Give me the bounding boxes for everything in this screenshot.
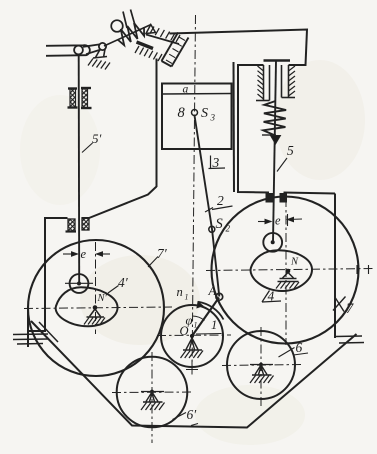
frame diagonal from lower guide to cylinder xyxy=(89,187,157,219)
center of mass S2 xyxy=(209,226,215,232)
spring coils (top-left) xyxy=(118,23,145,45)
gear 6 circle xyxy=(227,331,295,399)
hopper left inner parallel segment xyxy=(39,322,58,342)
rod 5 lower guide block right xyxy=(280,194,287,203)
svg-text:6: 6 xyxy=(296,340,303,355)
upper hatched wall xyxy=(146,35,179,45)
rod 5' lower guide block right xyxy=(82,218,89,230)
piston rectangle (link 3) xyxy=(162,84,232,150)
svg-text:7′: 7′ xyxy=(157,246,168,261)
frame right wall vertical xyxy=(334,194,336,339)
rod 5' (left valve rod) xyxy=(78,55,81,284)
svg-text:e: e xyxy=(275,214,281,228)
svg-text:a: a xyxy=(183,84,189,96)
label 6 xyxy=(279,348,295,358)
cylinder right wall (link 0) xyxy=(233,62,236,192)
rocker pivot support legs xyxy=(96,49,106,58)
hopper bottom edge xyxy=(31,321,357,428)
gear 7 vertical centerline xyxy=(285,198,287,345)
gear 7 horizontal centerline xyxy=(206,269,375,271)
svg-text:φ: φ xyxy=(186,314,193,328)
svg-text:3: 3 xyxy=(212,155,220,170)
crank arm link 1 xyxy=(192,298,219,337)
svg-text:N′: N′ xyxy=(97,293,108,304)
rod 5 lower guide block left xyxy=(266,194,273,203)
svg-text:5: 5 xyxy=(287,143,294,158)
svg-text:S: S xyxy=(201,106,208,121)
fixed pivot of rocker xyxy=(99,43,106,50)
svg-text:4′: 4′ xyxy=(118,275,129,290)
svg-text:1: 1 xyxy=(194,321,198,330)
crank horizontal centerline xyxy=(157,334,231,337)
eccentricity dimension e (right) xyxy=(258,221,271,223)
frame right wall end hatch xyxy=(336,335,362,338)
svg-text:e: e xyxy=(81,247,87,261)
gear 6' pivot support xyxy=(150,390,154,394)
slanted guide line A xyxy=(162,33,179,62)
roller on rod 5 xyxy=(263,233,282,252)
svg-text:2: 2 xyxy=(217,193,224,208)
svg-text:7: 7 xyxy=(346,301,354,317)
rotation arrow n1 xyxy=(198,302,224,320)
pin joint on rocker xyxy=(74,46,83,55)
cam 4 pivot N xyxy=(286,269,291,274)
rocker pivot support hatching xyxy=(88,59,110,70)
angle phi1 arc xyxy=(193,316,205,320)
gear 7 centerline end ticks xyxy=(356,265,358,274)
roller on rod 5' xyxy=(70,274,89,293)
label 3 with bracket xyxy=(209,156,226,169)
label 4 xyxy=(262,291,281,303)
rod 5 (right valve rod) xyxy=(273,61,276,242)
slanted guide line B xyxy=(172,38,189,67)
label 5 xyxy=(277,158,287,172)
gear 6 vertical centerline xyxy=(260,327,262,406)
svg-text:5′: 5′ xyxy=(92,131,102,146)
svg-text:8: 8 xyxy=(178,105,186,121)
svg-text:1: 1 xyxy=(185,293,189,302)
spring on rod 5 xyxy=(263,101,286,135)
short link rocker-to-pivot xyxy=(83,44,100,46)
lower hatched wall piece xyxy=(137,42,154,49)
center of mass S3 xyxy=(192,110,198,116)
lever horizontal bar (rocker arm) xyxy=(46,45,90,56)
gear 6 horizontal centerline xyxy=(222,365,302,366)
rod 5 guide wall right xyxy=(281,65,283,98)
spring axis line (top-left spring) xyxy=(104,25,151,47)
svg-text:1: 1 xyxy=(211,318,217,332)
rod 5 top cap xyxy=(264,59,291,62)
spring anchor eye xyxy=(111,20,123,32)
svg-text:S: S xyxy=(216,216,224,232)
crank bottom centerline tick xyxy=(191,360,193,376)
spring far anchor triangle xyxy=(146,25,156,34)
frame left column xyxy=(28,218,68,331)
piston axis centerline xyxy=(192,15,196,374)
crank center O xyxy=(190,334,194,338)
gear 6 pivot support xyxy=(259,363,263,367)
cam 4 profile xyxy=(251,250,312,291)
connecting rod link 2 xyxy=(195,116,220,297)
gear 7' horizontal centerline xyxy=(24,307,172,309)
rod 5 guide wall left xyxy=(263,65,265,101)
eccentricity dimension e (left) xyxy=(63,253,78,255)
wire frame top box (fixed link 0) xyxy=(170,30,308,66)
cam 4 pivot support xyxy=(283,273,294,279)
crank circle (link 1 path) xyxy=(161,305,223,367)
cam 4' pivot N' xyxy=(93,305,98,310)
spring anchor cross ticks xyxy=(123,12,127,29)
rod 5' lower guide block left xyxy=(68,219,75,231)
rod 5' upper guide block right xyxy=(82,89,88,108)
gear 7 big circle xyxy=(212,197,359,344)
label 1 and reference line xyxy=(196,333,222,336)
gear 6' circle xyxy=(117,357,188,428)
svg-text:n: n xyxy=(177,285,183,299)
label 7' xyxy=(148,257,158,268)
slanted guide bottom cap xyxy=(162,61,172,67)
svg-text:4: 4 xyxy=(268,289,275,304)
svg-text:N: N xyxy=(290,257,299,268)
slanted guide hatching xyxy=(166,37,185,64)
label 4' xyxy=(108,286,119,294)
label 7 with cross xyxy=(333,297,346,311)
cylinder left wall (link 0) xyxy=(156,59,158,188)
rod 5' upper guide block left xyxy=(70,89,76,108)
svg-text:6′: 6′ xyxy=(187,407,198,422)
gear 6' vertical centerline xyxy=(151,352,153,443)
gear 6' horizontal centerline xyxy=(112,391,194,394)
svg-text:3: 3 xyxy=(210,113,216,123)
label 5' xyxy=(82,143,93,153)
crank pivot support xyxy=(186,338,198,350)
frame left wall end hatch xyxy=(13,333,48,336)
label 2 xyxy=(205,208,213,213)
cam 4' profile xyxy=(56,287,118,326)
label 6' xyxy=(173,413,187,420)
cam 4' pivot support xyxy=(90,309,101,317)
gear 7' vertical centerline xyxy=(95,242,97,334)
crank pin A xyxy=(216,293,223,300)
gear 7' big circle xyxy=(28,240,164,376)
